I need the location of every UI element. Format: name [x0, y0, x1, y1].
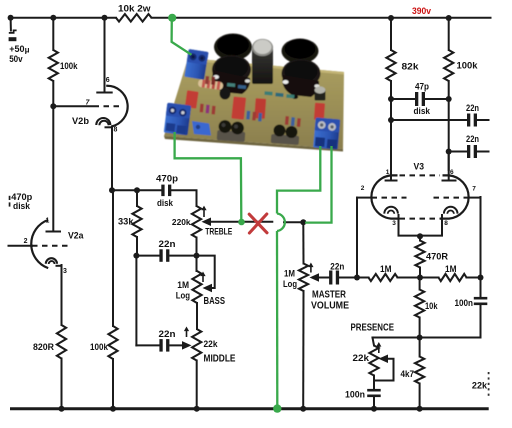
svg-text:10k 2w: 10k 2w [118, 4, 152, 14]
svg-text:1M: 1M [177, 280, 189, 290]
svg-text:10k: 10k [425, 301, 438, 311]
svg-text:3: 3 [63, 268, 67, 275]
svg-text:disk: disk [157, 198, 174, 208]
svg-text:100n: 100n [455, 298, 474, 308]
svg-text:22n: 22n [466, 134, 479, 144]
svg-text:1: 1 [386, 169, 390, 176]
svg-text:22n: 22n [330, 262, 344, 272]
svg-text:V2a: V2a [68, 231, 84, 241]
svg-text:BASS: BASS [204, 296, 226, 307]
svg-text:50v: 50v [9, 54, 23, 64]
svg-text:VOLUME: VOLUME [311, 300, 349, 312]
svg-text:Log: Log [283, 279, 297, 289]
svg-text:22k: 22k [472, 381, 488, 391]
svg-text:MIDDLE: MIDDLE [204, 353, 236, 365]
svg-text:V3: V3 [414, 161, 425, 171]
svg-text:100k: 100k [60, 61, 78, 71]
svg-text:1M: 1M [284, 269, 295, 279]
svg-text:22k: 22k [204, 339, 219, 349]
svg-text:8: 8 [444, 220, 448, 227]
svg-text:μ: μ [25, 45, 30, 54]
svg-text:1M: 1M [380, 264, 392, 274]
svg-text:8: 8 [114, 127, 118, 134]
svg-text:3: 3 [392, 220, 396, 227]
svg-text:PRESENCE: PRESENCE [351, 322, 395, 334]
svg-text:7: 7 [472, 186, 476, 193]
svg-text:+50: +50 [9, 44, 24, 54]
svg-text:22k: 22k [353, 353, 371, 363]
svg-text:TREBLE: TREBLE [205, 227, 232, 238]
svg-text:disk: disk [414, 106, 431, 116]
svg-text:100k: 100k [457, 60, 479, 70]
svg-text:6: 6 [106, 77, 110, 84]
svg-text:470p: 470p [156, 173, 179, 183]
svg-text:1M: 1M [445, 264, 457, 274]
svg-text:6: 6 [450, 169, 454, 176]
svg-text:2: 2 [24, 238, 28, 245]
svg-text:220k: 220k [172, 217, 191, 227]
svg-text:Log: Log [176, 290, 190, 300]
svg-text:4k7: 4k7 [401, 369, 415, 379]
svg-text:22n: 22n [466, 103, 479, 113]
svg-text:82k: 82k [402, 62, 420, 72]
svg-text:2: 2 [361, 185, 365, 192]
svg-text:22n: 22n [159, 329, 176, 339]
svg-text:1: 1 [46, 218, 50, 225]
svg-text:100k: 100k [90, 342, 109, 352]
svg-text:33k: 33k [118, 216, 135, 226]
svg-text:390v: 390v [412, 6, 431, 16]
svg-text:470R: 470R [426, 252, 449, 262]
svg-text:V2b: V2b [72, 116, 90, 126]
svg-text:22n: 22n [159, 239, 176, 249]
svg-text:47p: 47p [415, 81, 429, 91]
svg-text:disk: disk [13, 201, 31, 211]
svg-text:820R: 820R [33, 342, 54, 352]
svg-text:100n: 100n [345, 389, 365, 399]
